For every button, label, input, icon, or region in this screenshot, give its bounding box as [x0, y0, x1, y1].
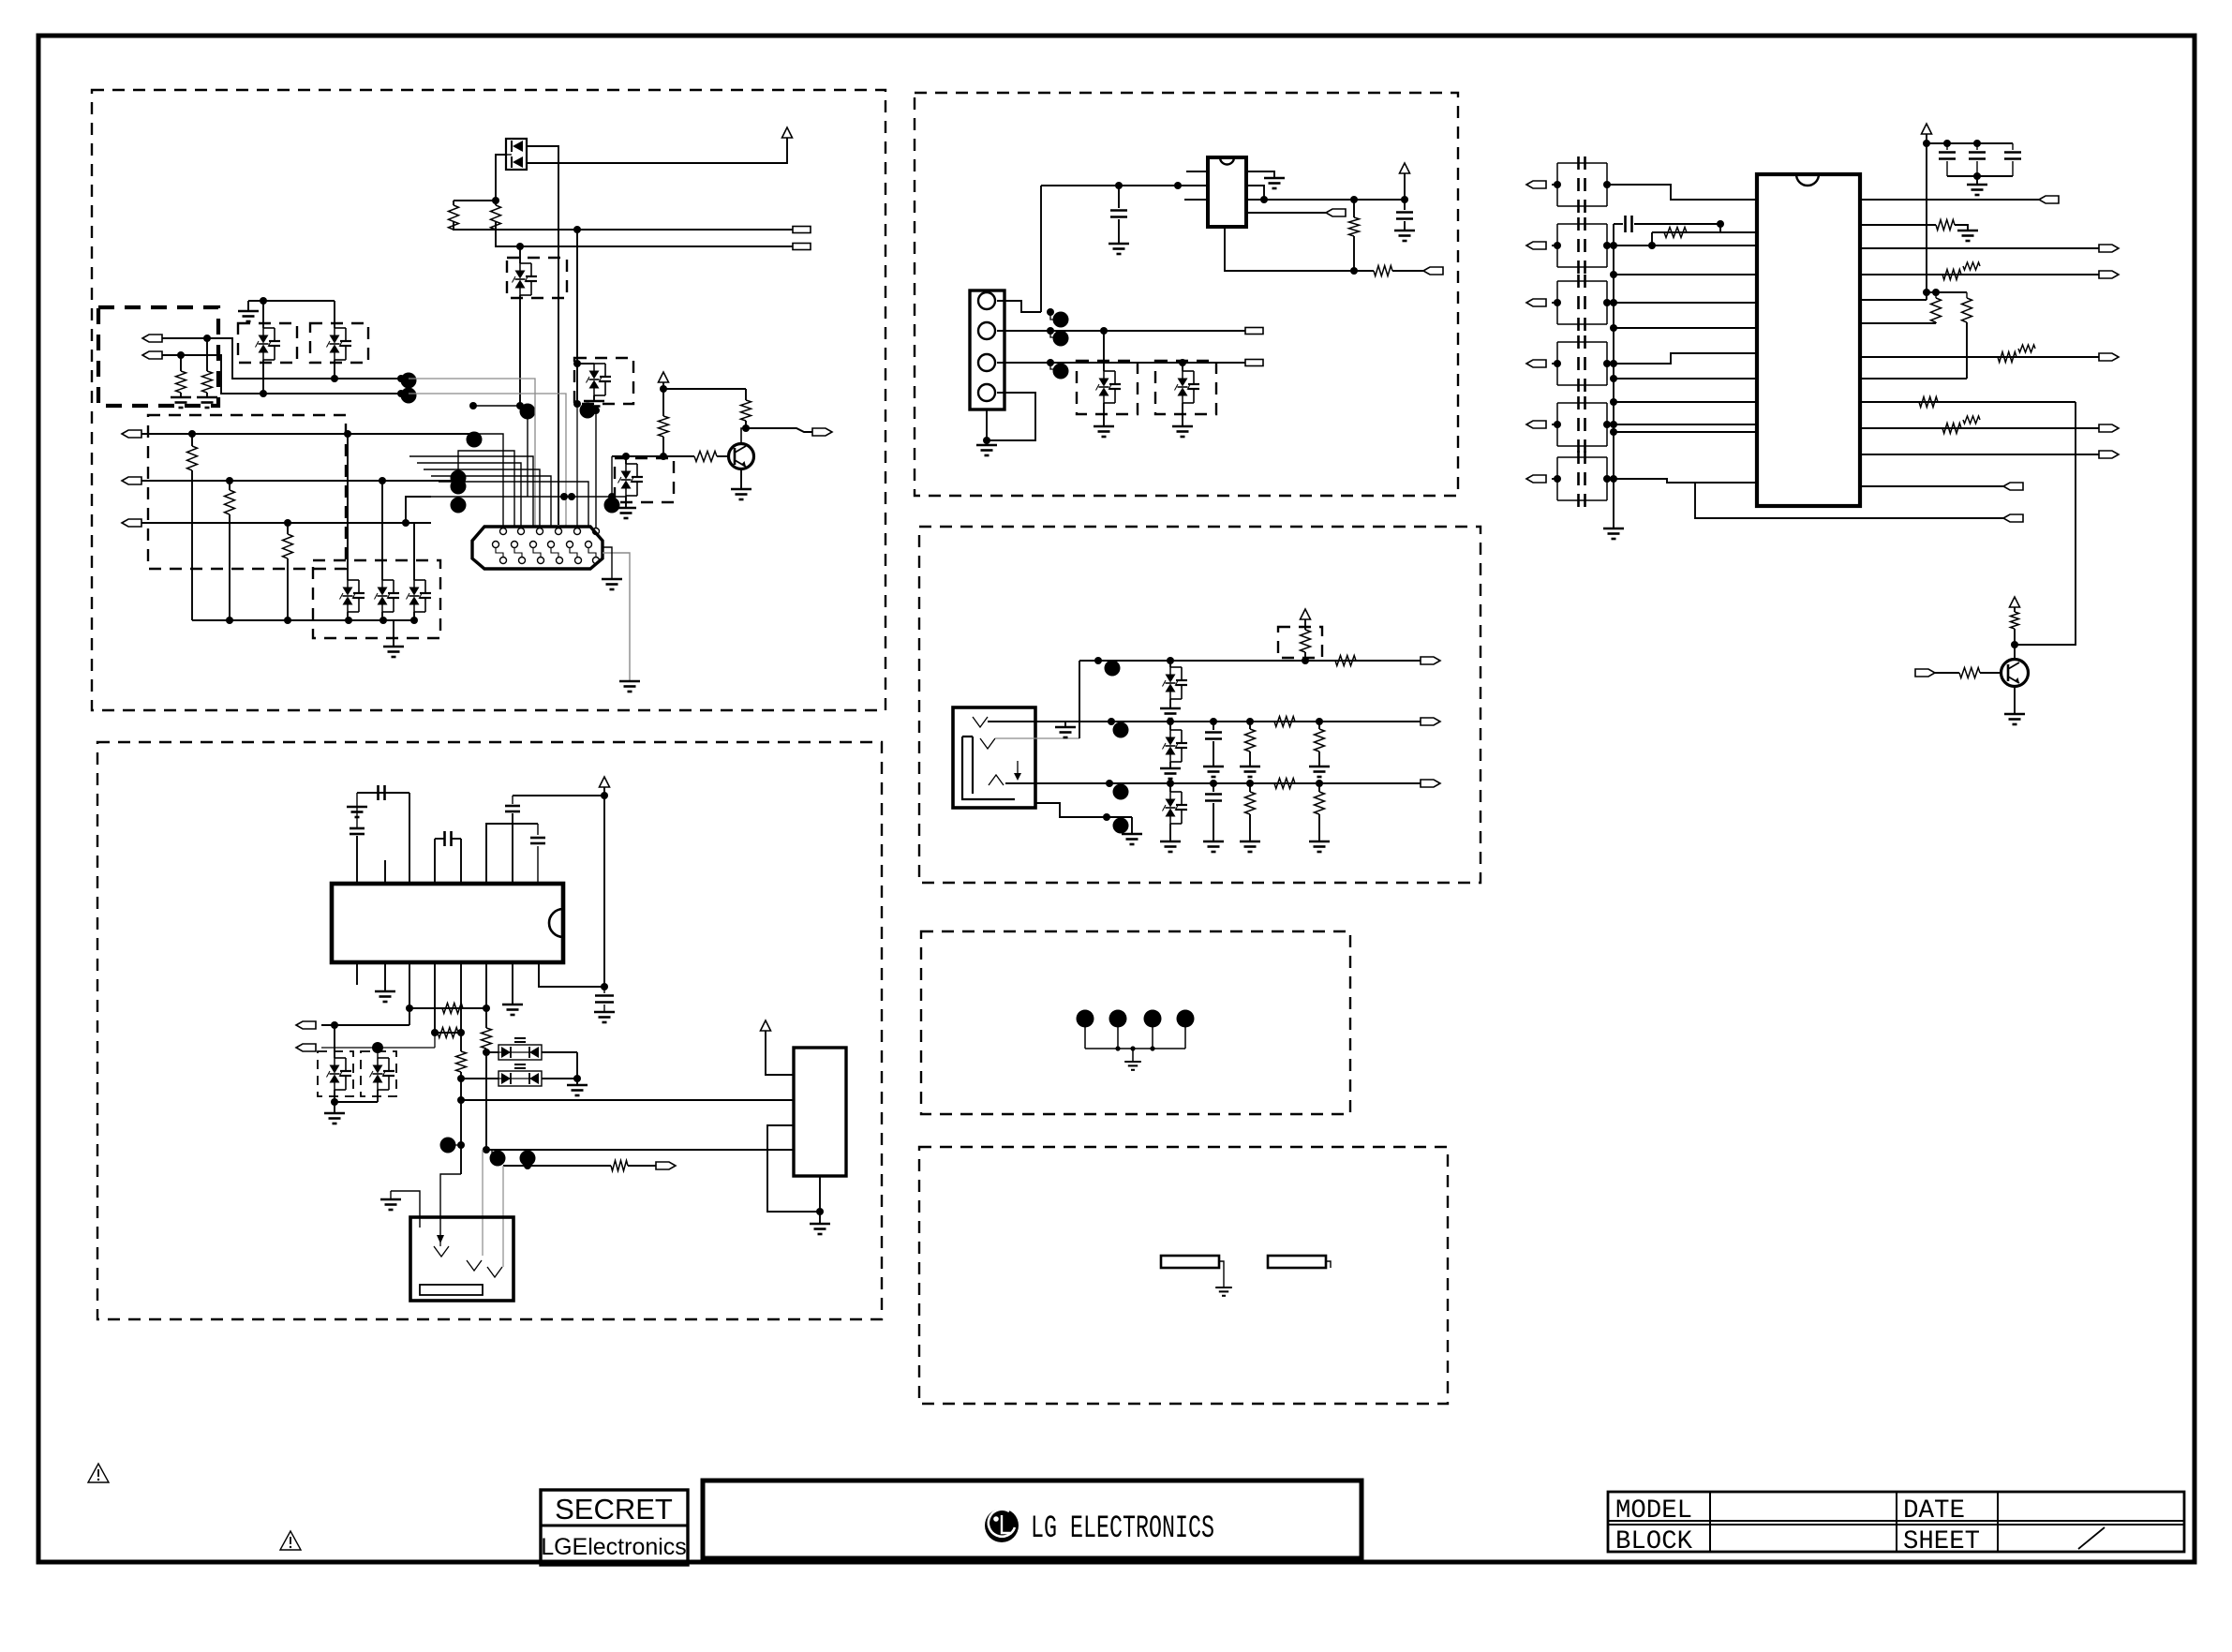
- wire Q2 collector: [2014, 629, 2016, 660]
- wire C-U2out ground: [1404, 221, 1406, 231]
- cap group 1 frame: [1557, 162, 1607, 164]
- wire U2 sense port: [1246, 212, 1326, 214]
- TVS ZD-J2: [1175, 371, 1200, 403]
- wire TVS J2 ground: [1182, 403, 1183, 426]
- node bus 293: [1610, 271, 1617, 278]
- J1 contact 2: [980, 738, 995, 749]
- node row3 TVS: [1167, 780, 1174, 787]
- capacitor C4b: [1577, 357, 1580, 370]
- gray wire 404 to connector: [409, 379, 535, 526]
- capacitor C t1: [1946, 143, 1948, 150]
- wire TVS K2 ground: [1169, 762, 1171, 768]
- port B1 antenna: [142, 335, 162, 342]
- power arrow block B2: [761, 1020, 771, 1031]
- stub pin3 big dot: [1050, 363, 1055, 369]
- port U4 bottom: [2003, 514, 2023, 522]
- wire pin519 long: [485, 962, 487, 1028]
- wire to collector resistor: [745, 389, 747, 400]
- wire pin464 bottom: [434, 962, 436, 1033]
- resistor R-Q1 collector: [741, 400, 751, 421]
- junction big dot bus: [520, 404, 536, 420]
- node pin3: [1047, 359, 1054, 366]
- node pin2: [1047, 327, 1054, 335]
- wire R row2 ground: [1249, 752, 1251, 766]
- junction big dot row4: [1113, 818, 1129, 834]
- port B2 antenna: [142, 351, 162, 359]
- node TP3 bus: [1150, 1046, 1154, 1050]
- node on AGC wire: [573, 226, 581, 233]
- junction big dot C1: [467, 432, 483, 448]
- capacitor C xtal: [443, 831, 446, 846]
- wire fb cap to node: [1634, 223, 1720, 225]
- port CN2 pin3: [1245, 360, 1263, 366]
- resistor R 492: [456, 1051, 467, 1072]
- CN1 pin row3-6: [593, 558, 600, 564]
- wire U4 out 457: [1860, 427, 2099, 429]
- CN1 jog row2-2: [514, 548, 522, 557]
- node 653: [608, 493, 616, 500]
- ground TVS G: [616, 508, 636, 518]
- wire G3 to pin: [1607, 302, 1757, 304]
- capacitor C5b: [1577, 418, 1580, 431]
- resistor RC2: [229, 481, 231, 490]
- wire B2 vcc: [766, 1031, 794, 1075]
- TVS ZD-O2: [370, 1058, 395, 1090]
- port AV row1: [1421, 657, 1440, 664]
- wire CN1 shell ground: [603, 547, 612, 579]
- ground CN1 right: [619, 681, 640, 692]
- wire micom vcc stem: [603, 787, 605, 796]
- wire AV row3: [1005, 782, 1421, 784]
- node row2 res: [1246, 718, 1254, 725]
- connector CN1: [472, 527, 603, 569]
- IC U3 micom: [332, 884, 563, 962]
- wire U4 out 429: [1860, 401, 2076, 403]
- node vcc node: [601, 792, 608, 799]
- wire C2: [141, 480, 458, 482]
- resistor R pair1: [1935, 292, 1937, 298]
- wire diode row1 link: [486, 1051, 498, 1053]
- wire AV row4 shield: [1035, 803, 1132, 817]
- wire TVS bottoms: [334, 1090, 335, 1102]
- junction big dot 539: [451, 498, 467, 513]
- node TVS J1 top: [1100, 327, 1108, 335]
- port Q1 out: [812, 428, 832, 436]
- wire TVS G top: [625, 456, 627, 464]
- wire stair f3: [409, 456, 533, 528]
- CN2 pin 2: [978, 322, 995, 339]
- wire cap K3 stub: [1213, 783, 1214, 792]
- TVS ZD-J1: [1096, 371, 1122, 403]
- CN1 pin row2-5: [567, 542, 573, 548]
- node DP ground: [573, 1075, 581, 1082]
- TVS ZD-K1: [1163, 667, 1188, 699]
- node cap trio ground: [1973, 172, 1981, 180]
- node C1 b: [344, 430, 351, 438]
- wire U2 bottom loop: [1225, 227, 1374, 271]
- ground B2: [810, 1224, 830, 1234]
- wire pin411 stub: [384, 860, 386, 884]
- junction big dot pin2: [1053, 331, 1069, 347]
- ground TVS J2: [1172, 426, 1193, 437]
- power arrow VCC tuner: [782, 127, 793, 138]
- resistor R-Q1 base: [694, 452, 717, 462]
- wire port to cap group 5: [1552, 424, 1557, 425]
- AV jack J1: [953, 707, 1035, 808]
- node bus 429: [1610, 398, 1617, 406]
- TVS ZD-D2: [375, 580, 400, 612]
- wire Q2 vcc stem: [2014, 607, 2016, 612]
- wire 429 vertical to Q2: [2015, 402, 2076, 645]
- wire G2 to pin: [1607, 245, 1757, 246]
- secret box divider: [541, 1525, 688, 1527]
- svg-text:BLOCK: BLOCK: [1615, 1527, 1692, 1556]
- wire G4 to pin: [1607, 353, 1757, 364]
- node base: [660, 453, 667, 460]
- wire TP bus: [1084, 1027, 1086, 1049]
- node bus 323: [1610, 299, 1617, 306]
- resistor R 1244: [611, 1161, 628, 1171]
- J1 contact 3: [989, 775, 1004, 785]
- node row2 b: [1316, 718, 1323, 725]
- wire pin464 xtal: [434, 839, 436, 884]
- ground cap trio: [1967, 185, 1987, 195]
- wire TVS D2 to bus: [381, 612, 383, 620]
- wire B2 to step: [162, 355, 409, 394]
- TVS ZD-K3: [1163, 792, 1188, 824]
- port terminal AGC: [793, 227, 811, 233]
- capacitor C3c: [1577, 318, 1580, 331]
- stub big dot 1222: [455, 1144, 461, 1146]
- CN1 pin row1-5: [574, 528, 581, 535]
- wire long 1227 to block: [486, 1149, 794, 1151]
- node bus z3: [410, 617, 418, 624]
- J3 contact 2: [467, 1260, 482, 1271]
- CN1 pin row2-6: [586, 542, 592, 548]
- ground DP: [567, 1085, 588, 1095]
- wire cap trio top bus: [1927, 142, 2013, 144]
- node fb: [1717, 220, 1724, 228]
- title table col MODEL label: [1709, 1492, 1711, 1552]
- node 530 b: [568, 493, 575, 500]
- port U4 out1: [2039, 196, 2059, 203]
- port terminal AFT: [793, 244, 811, 250]
- capacitor C row2: [1205, 731, 1222, 734]
- block B2: [794, 1048, 846, 1176]
- node TP center: [1130, 1046, 1135, 1050]
- title table col DATE value: [1997, 1492, 1999, 1552]
- wire R1 bottom to port: [454, 222, 793, 230]
- ground R term row2: [1309, 766, 1330, 777]
- node input b: [1174, 182, 1182, 189]
- wire D1 anode to resistor node: [496, 155, 506, 205]
- resistor R row1: [1335, 656, 1356, 666]
- stub pin1 big dot: [1050, 312, 1055, 320]
- stub big dot 1235: [486, 1150, 495, 1158]
- CN1 jog row2-4: [551, 548, 558, 557]
- port U4 out 265: [2099, 245, 2119, 252]
- capacitor C5c: [1577, 439, 1580, 453]
- ground pin547: [502, 1005, 523, 1015]
- wire C3: [141, 522, 431, 524]
- junction big dot 1244: [520, 1151, 536, 1167]
- node pin1: [1047, 308, 1054, 316]
- ground stub top bus: [247, 301, 249, 311]
- port U2 sense: [1326, 209, 1346, 216]
- port IF in 1: [1526, 181, 1546, 188]
- wire bus 530: [431, 496, 626, 498]
- test point TP2: [1109, 1010, 1127, 1028]
- svg-text:MODEL: MODEL: [1615, 1496, 1692, 1525]
- CN1 pin row2-4: [548, 542, 555, 548]
- wire U2 output: [1246, 199, 1405, 201]
- node on AFT wire: [516, 243, 524, 250]
- power arrow Q1: [659, 372, 669, 382]
- CN2 pin 3: [978, 354, 995, 371]
- node cap group 5 left: [1554, 421, 1561, 428]
- wire 492 into jack: [440, 1174, 461, 1237]
- ground TVS O: [324, 1113, 345, 1124]
- cap group 5 frame: [1557, 402, 1607, 404]
- wire C1 to TVS D1: [347, 434, 349, 580]
- TVS ZD-H2: [327, 328, 352, 360]
- wire TVS H2 to wire 404: [334, 360, 335, 379]
- ground C row3: [1203, 841, 1224, 852]
- junction big dot 537: [604, 498, 620, 513]
- resistor R row3 shunt: [1249, 783, 1251, 792]
- resistor R out 429: [1919, 397, 1938, 408]
- CN1 pin row3-1: [500, 558, 507, 564]
- node 464-1102: [431, 1029, 439, 1036]
- power arrow Q2: [2010, 597, 2020, 607]
- svg-text:LGElectronics: LGElectronics: [541, 1534, 687, 1560]
- wire trio ground stub: [1976, 176, 1978, 185]
- junction big dot 1222: [440, 1138, 456, 1153]
- wire C2 to TVS D2: [381, 481, 383, 580]
- capacitor C row3: [1205, 793, 1222, 796]
- node bus 511: [1610, 475, 1617, 483]
- wire bus to TVS H2: [334, 301, 335, 328]
- J3 contact 3: [487, 1267, 502, 1277]
- wire U4 out 381: [1860, 356, 2099, 358]
- wire row4 ground stub: [1131, 817, 1133, 834]
- wire pin547 up: [512, 813, 513, 884]
- node cap group 6 right: [1603, 475, 1611, 483]
- CN1 pin row3-4: [557, 558, 563, 564]
- ground R row3: [1240, 841, 1260, 852]
- node cap group 1 right: [1603, 181, 1611, 188]
- wire U4 pin 345: [1860, 322, 1936, 324]
- ground TVS F: [584, 401, 604, 411]
- TVS ZD-D3: [407, 580, 432, 612]
- AV input block dashed border: [919, 527, 1481, 883]
- node cap group 1 left: [1554, 181, 1561, 188]
- J1 contact 1: [973, 717, 988, 727]
- node cap group 6 left: [1554, 475, 1561, 483]
- wire power stem: [1404, 173, 1406, 200]
- node 519-1076: [483, 1005, 490, 1012]
- wire stair f2: [458, 451, 514, 541]
- ground RB2: [206, 393, 208, 397]
- CN1 jog row2-1: [496, 548, 503, 557]
- node H1 bottom: [260, 390, 267, 397]
- wire port to cap group 6: [1552, 478, 1557, 480]
- wire port to cap group 2: [1552, 245, 1557, 246]
- TVS dashed box O2: [361, 1051, 396, 1096]
- node vcc cap: [601, 983, 608, 990]
- wire Q1 collector: [741, 428, 746, 444]
- wire TVS O2 top: [377, 1048, 379, 1058]
- wire U2 left pin stub: [1184, 199, 1208, 201]
- test point block dashed border: [921, 931, 1350, 1114]
- junction big dot row3: [1113, 784, 1129, 800]
- TVS array dashed box D: [313, 560, 440, 638]
- wire pin519 loop: [486, 824, 538, 884]
- test point TP4: [1177, 1010, 1195, 1028]
- TVS dashed box J2: [1155, 361, 1216, 414]
- node IF vcc cap: [1923, 140, 1930, 147]
- port AV row3: [1421, 780, 1440, 787]
- wire TVS G to ground: [625, 496, 627, 508]
- wire U4 out 265: [1860, 247, 2099, 249]
- test point TP1: [1077, 1010, 1094, 1028]
- wire TVS H1 to wire 420: [262, 360, 264, 394]
- TVS dashed box J1: [1077, 361, 1138, 414]
- wire 240 to ground: [1955, 225, 1968, 231]
- node input cap: [1115, 182, 1123, 189]
- node cap group 3 left: [1554, 299, 1561, 306]
- node 519-1123: [483, 1049, 490, 1056]
- resistor R Q2 collector: [2011, 612, 2019, 629]
- wire Q1 vcc node: [662, 382, 664, 416]
- wire TVS J1 stub: [1103, 331, 1105, 371]
- junction big dot pin1: [1053, 312, 1069, 328]
- wire TVS J2 stub: [1182, 363, 1183, 371]
- ground TP: [1124, 1062, 1141, 1070]
- resistor R out 381: [1998, 352, 2016, 363]
- node C3 a: [284, 519, 291, 527]
- ground R term row3: [1309, 841, 1330, 852]
- wire pin437 top: [409, 793, 410, 884]
- CN1 pin row3-5: [575, 558, 582, 564]
- node CN2 ground: [983, 437, 990, 444]
- capacitor C loop: [537, 824, 539, 835]
- wire R term ground: [1318, 752, 1320, 766]
- ground jack left: [380, 1199, 401, 1210]
- wire B1 to step: [162, 338, 409, 379]
- capacitor C-U2out: [1396, 211, 1413, 214]
- gray wire contact2 out: [995, 737, 1079, 739]
- wire zener top bus: [248, 300, 335, 302]
- LG logo: [985, 1509, 1019, 1542]
- resistor R out 457: [1942, 424, 1961, 434]
- transistor Q2: [2001, 660, 2029, 687]
- diode pair DP2: [498, 1064, 542, 1086]
- node cap group 2 right: [1603, 242, 1611, 249]
- wire CN2 pin4: [987, 393, 1035, 440]
- node bus 461: [1610, 428, 1617, 436]
- wire Q2 base: [1935, 672, 1959, 674]
- junction big dot 508: [451, 470, 467, 486]
- gray wire 420 to connector: [409, 394, 566, 539]
- wire stair f6: [431, 476, 551, 541]
- wire AV row1: [1079, 660, 1421, 662]
- port IF in 4: [1526, 360, 1546, 367]
- wire TVS ground: [334, 1102, 335, 1113]
- port O2: [296, 1044, 316, 1051]
- node row4: [1103, 813, 1110, 821]
- wire vertical pin6: [595, 410, 597, 528]
- wire stair f4: [417, 463, 521, 528]
- wire U2 input: [1041, 185, 1208, 186]
- svg-text:SHEET: SHEET: [1903, 1527, 1980, 1556]
- wire CN2 pin1: [997, 301, 1041, 312]
- wire G6 to pin: [1607, 479, 1757, 483]
- resistor deco 381: [2018, 345, 2035, 352]
- node row3 b: [1316, 780, 1323, 787]
- node 636: [592, 407, 600, 414]
- pull-up resistor dashed box L: [1278, 627, 1322, 658]
- node 530 a: [560, 493, 568, 500]
- wire C3 to TVS D3: [413, 523, 415, 580]
- wire pin381 bottom stub: [356, 962, 358, 985]
- port IF in 5: [1526, 421, 1546, 428]
- wire pin381 top: [356, 836, 358, 884]
- wire pull-up to row1: [1304, 652, 1306, 661]
- junction big dot below box F: [580, 403, 596, 419]
- resistor R row2 series: [1274, 717, 1295, 727]
- wire F2 tab: [1326, 1261, 1331, 1268]
- ground pin381 cap: [356, 801, 358, 828]
- wire CN1 right to ground: [603, 553, 630, 681]
- ground row2: [1055, 727, 1076, 737]
- wire U4 pin 404: [1860, 378, 1967, 380]
- ground C vcc: [594, 1012, 615, 1022]
- resistor RC3: [287, 523, 289, 534]
- wire port to cap group 1: [1552, 184, 1557, 186]
- svg-text:LG ELECTRONICS: LG ELECTRONICS: [1031, 1511, 1214, 1547]
- port U4 out 457: [2099, 424, 2119, 432]
- node bus 453: [1610, 421, 1617, 428]
- fuse block dashed border: [919, 1147, 1448, 1404]
- wire long 1174 to block: [461, 1099, 794, 1101]
- wire bus pin 350: [1614, 327, 1757, 329]
- CN1 pin row1-4: [556, 528, 562, 535]
- resistor R-U2 adj: [1374, 266, 1392, 276]
- node C2 b: [379, 477, 386, 484]
- node zener top bus: [260, 297, 267, 305]
- node H2 bottom: [331, 375, 338, 382]
- wire fb cap row: [1614, 223, 1623, 225]
- wire TVS E down to bus: [519, 295, 521, 406]
- regulator block dashed border: [915, 93, 1458, 496]
- node cap group 2 left: [1554, 242, 1561, 249]
- gray wire 519 into jack: [482, 1150, 484, 1256]
- capacitor C1c: [1577, 200, 1580, 213]
- wire cap K2 stub: [1213, 722, 1214, 730]
- secret box: [541, 1490, 688, 1565]
- wire diode row2 link: [461, 1078, 498, 1079]
- resistor R fb: [1664, 228, 1687, 238]
- resistor R out 240: [1936, 220, 1955, 231]
- cap group 6 frame: [1557, 456, 1607, 458]
- junction big dot 1235: [490, 1151, 506, 1167]
- wire cross bus: [473, 405, 528, 407]
- node row2 cap: [1210, 718, 1217, 725]
- wire cap C-U2out stub: [1404, 200, 1406, 210]
- capacitor C6c: [1577, 494, 1580, 507]
- wire adj to port: [1392, 270, 1423, 272]
